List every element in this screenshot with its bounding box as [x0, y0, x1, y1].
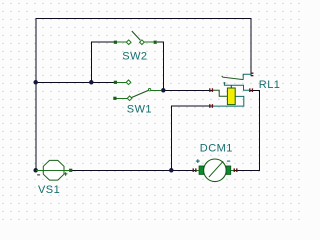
- SW2 lever (open): [132, 31, 141, 40]
- DCM1 right pin lead: [231, 169, 234, 171]
- coil core stub: [230, 85, 232, 88]
- fixed contact tip: [224, 82, 226, 84]
- VS1 positive pin lead: [64, 169, 69, 171]
- relay coil: [227, 88, 235, 105]
- svg-text:DCM1: DCM1: [200, 143, 233, 155]
- pin marker coil pin 1: [209, 88, 210, 92]
- SW2 pin 2 pad: [154, 41, 157, 44]
- SW1 throw 1 lead: [117, 81, 127, 83]
- pin marker coil pin 2: [209, 104, 210, 108]
- VS1 positive pin pad: [69, 169, 72, 172]
- wire: relay coil pin 2 left then down to node D: [171, 106, 213, 170]
- VS1 internal axis line: [43, 169, 64, 171]
- junction node C: [161, 88, 166, 93]
- VS1 minus sign: [37, 174, 40, 176]
- SW2 pin 1 lead: [117, 41, 127, 43]
- contact lever: [222, 76, 244, 80]
- dc motor DCM1: [193, 159, 238, 182]
- svg-text:SW2: SW2: [122, 51, 147, 63]
- DCM1 left brush block: [199, 166, 204, 174]
- relay RL1: [209, 73, 253, 108]
- pin marker contact top: [251, 73, 254, 74]
- lever to top pin: [243, 74, 251, 80]
- voltage source VS1: [36, 160, 72, 180]
- junction node D: [169, 168, 174, 173]
- DCM1 rotor slash: [209, 161, 223, 177]
- switch SW2: [114, 31, 157, 45]
- SW2 contact 1: [126, 40, 131, 45]
- VS1 octagon body: [43, 160, 64, 180]
- wire: node C to relay coil pin 1: [163, 89, 213, 91]
- fixed contact bar: [224, 83, 249, 91]
- VS1 plus sign: [64, 172, 68, 176]
- DCM1 right brush block: [226, 166, 231, 174]
- DCM1 motor body circle: [204, 159, 227, 182]
- SW1 lever (closed to throw 2): [132, 90, 149, 97]
- wire: SW2 right pad to corner down to node C: [157, 42, 164, 90]
- wire: bottom rail from VS1 right pad to DCM1 left pin: [72, 169, 197, 171]
- wire: main loop top rail / left rail / right-top vertical: [36, 18, 251, 170]
- SW1 pole lead: [151, 89, 162, 91]
- svg-text:VS1: VS1: [38, 184, 60, 196]
- junction node A: [33, 80, 38, 85]
- switch SW1 (SPDT): [113, 80, 161, 101]
- svg-text:RL1: RL1: [259, 79, 281, 91]
- pin marker DCM1 right: [234, 168, 235, 172]
- SW1 throw 1 contact: [126, 80, 131, 85]
- wire: DCM1 right pin to corner up to relay contact right pin: [234, 90, 260, 170]
- SW1 throw 1 pad: [114, 81, 117, 84]
- wire: node A to node B horizontal: [35, 81, 91, 83]
- pin marker contact right: [249, 88, 250, 92]
- pin marker DCM1 left: [193, 168, 194, 172]
- DCM1 minus sign: [227, 160, 230, 162]
- DCM1 left pin lead: [196, 169, 199, 171]
- SW1 throw 2 contact: [127, 96, 132, 101]
- junction dot VS1 left terminal: [33, 168, 38, 173]
- DCM1 plus sign: [196, 159, 200, 163]
- SW2 pin 2 lead: [144, 41, 154, 43]
- wire: node B up to SW2 row and right to SW2 left pad: [91, 42, 114, 82]
- coil pin 2 lead: [213, 96, 244, 106]
- svg-text:SW1: SW1: [127, 103, 152, 115]
- SW2 contact 2: [140, 40, 145, 45]
- SW1 pole pivot: [148, 89, 150, 91]
- SW1 throw 2 pad: [113, 97, 116, 100]
- SW2 pin 1 pad: [114, 41, 117, 44]
- VS1 negative pin lead: [36, 169, 43, 171]
- junction node B: [89, 80, 94, 85]
- SW1 throw 2 lead: [116, 97, 127, 99]
- coil pin 1 lead: [213, 90, 228, 96]
